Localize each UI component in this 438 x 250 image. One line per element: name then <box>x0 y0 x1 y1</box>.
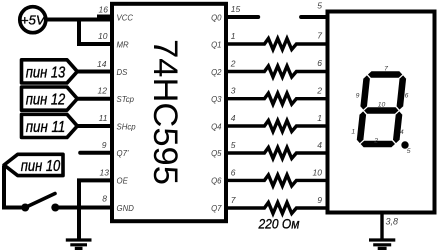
ground under display <box>369 240 395 248</box>
wire OE pin 13 down to gnd net <box>79 180 112 240</box>
svg-text:15: 15 <box>231 4 241 14</box>
svg-text:9: 9 <box>317 195 322 205</box>
svg-text:пин 10: пин 10 <box>21 158 61 175</box>
decimal point dp <box>401 141 408 148</box>
svg-text:пин 11: пин 11 <box>26 119 66 136</box>
svg-text:220 Ом: 220 Ом <box>258 217 300 232</box>
wire switch to GND pin 8 <box>55 206 112 210</box>
svg-text:6: 6 <box>317 58 322 68</box>
svg-text:7: 7 <box>317 31 322 41</box>
segment 10 middle <box>364 107 398 114</box>
svg-text:12: 12 <box>98 86 108 96</box>
svg-text:5: 5 <box>231 140 236 150</box>
flag пин 10 <box>4 154 63 175</box>
resistor R5 row Q5 <box>226 148 327 159</box>
svg-text:74HC595: 74HC595 <box>146 39 184 185</box>
svg-text:Q7: Q7 <box>211 204 222 213</box>
svg-text:16: 16 <box>99 5 109 15</box>
svg-text:SHcp: SHcp <box>117 122 137 131</box>
svg-text:пин 12: пин 12 <box>26 92 66 109</box>
flag пин 13 <box>22 60 78 83</box>
svg-text:3,8: 3,8 <box>386 217 399 227</box>
svg-text:9: 9 <box>356 93 360 100</box>
svg-text:4: 4 <box>317 140 322 150</box>
resistor R2 row Q2 <box>226 66 327 77</box>
ground under IC <box>66 240 92 248</box>
svg-text:Q0: Q0 <box>211 13 222 22</box>
wire +5V to VCC pin 16 <box>45 18 112 22</box>
svg-text:OE: OE <box>117 177 129 186</box>
segment 9 top-left <box>360 75 370 109</box>
wire пин12 to STcp <box>76 97 112 101</box>
switch S1 <box>21 194 59 212</box>
svg-text:пин 13: пин 13 <box>26 64 66 81</box>
svg-text:13: 13 <box>100 168 110 178</box>
stub Q0 pin 15 <box>226 15 258 19</box>
flag пин 12 <box>22 87 78 110</box>
svg-text:11: 11 <box>99 113 108 123</box>
svg-text:+5V: +5V <box>21 12 46 27</box>
svg-text:GND: GND <box>117 204 135 213</box>
svg-text:4: 4 <box>231 113 236 123</box>
svg-text:2: 2 <box>316 86 322 96</box>
svg-text:10: 10 <box>378 101 386 108</box>
svg-text:1: 1 <box>317 113 322 123</box>
svg-text:7: 7 <box>384 66 388 73</box>
svg-text:3: 3 <box>231 86 236 96</box>
svg-text:4: 4 <box>400 129 404 136</box>
svg-text:DS: DS <box>117 68 129 77</box>
resistor R3 row Q3 <box>226 93 327 104</box>
resistor R6 row Q6 <box>226 175 327 186</box>
svg-text:1: 1 <box>231 31 236 41</box>
svg-text:9: 9 <box>102 140 107 150</box>
resistor R1 row Q1 <box>226 39 327 50</box>
svg-text:7: 7 <box>231 195 236 205</box>
power +5V <box>20 7 46 33</box>
segment 6 top-right <box>397 75 407 109</box>
svg-text:Q7’: Q7’ <box>117 149 129 158</box>
stub display pin 5 <box>301 15 327 19</box>
segment 7 top <box>368 71 402 78</box>
stub Q7' pin 9 <box>80 151 112 155</box>
7-segment display DS1 body <box>328 12 435 213</box>
resistor R7 row Q7 <box>226 203 327 214</box>
svg-text:Q4: Q4 <box>211 122 222 131</box>
wire branch to MR pin 10 <box>79 20 112 45</box>
resistor rows Q1..Q7 <box>226 39 327 214</box>
svg-text:STcp: STcp <box>117 95 135 104</box>
segment 4 bottom-right <box>393 111 402 143</box>
svg-text:6: 6 <box>405 93 409 100</box>
segment 2 bottom <box>361 141 395 148</box>
svg-text:10: 10 <box>98 31 108 41</box>
svg-text:14: 14 <box>97 59 107 69</box>
svg-text:Q5: Q5 <box>211 149 222 158</box>
svg-text:2: 2 <box>373 138 378 145</box>
resistor R4 row Q4 <box>226 121 327 132</box>
7-segment digit <box>357 71 409 149</box>
svg-text:VCC: VCC <box>117 13 134 22</box>
wire пин13 to DS <box>76 70 112 74</box>
svg-text:Q3: Q3 <box>211 95 222 104</box>
svg-text:MR: MR <box>117 40 129 49</box>
wire пин11 to SHcp <box>76 124 112 128</box>
wire display common cathode to ground <box>380 212 383 240</box>
svg-text:8: 8 <box>102 194 107 204</box>
wire пин10 down to switch <box>4 166 23 208</box>
flag пин 11 <box>22 114 78 137</box>
svg-text:Q2: Q2 <box>211 68 222 77</box>
svg-text:5: 5 <box>317 0 322 10</box>
IC U1 74HC595 body <box>112 4 226 221</box>
svg-text:Q1: Q1 <box>211 40 221 49</box>
svg-text:Q6: Q6 <box>211 177 222 186</box>
svg-text:1: 1 <box>351 129 355 136</box>
svg-text:10: 10 <box>313 167 323 177</box>
svg-text:6: 6 <box>231 167 236 177</box>
svg-text:5: 5 <box>407 148 411 155</box>
segment 1 bottom-left <box>357 111 366 143</box>
svg-text:2: 2 <box>230 59 236 69</box>
pin 16 stub <box>97 15 112 20</box>
